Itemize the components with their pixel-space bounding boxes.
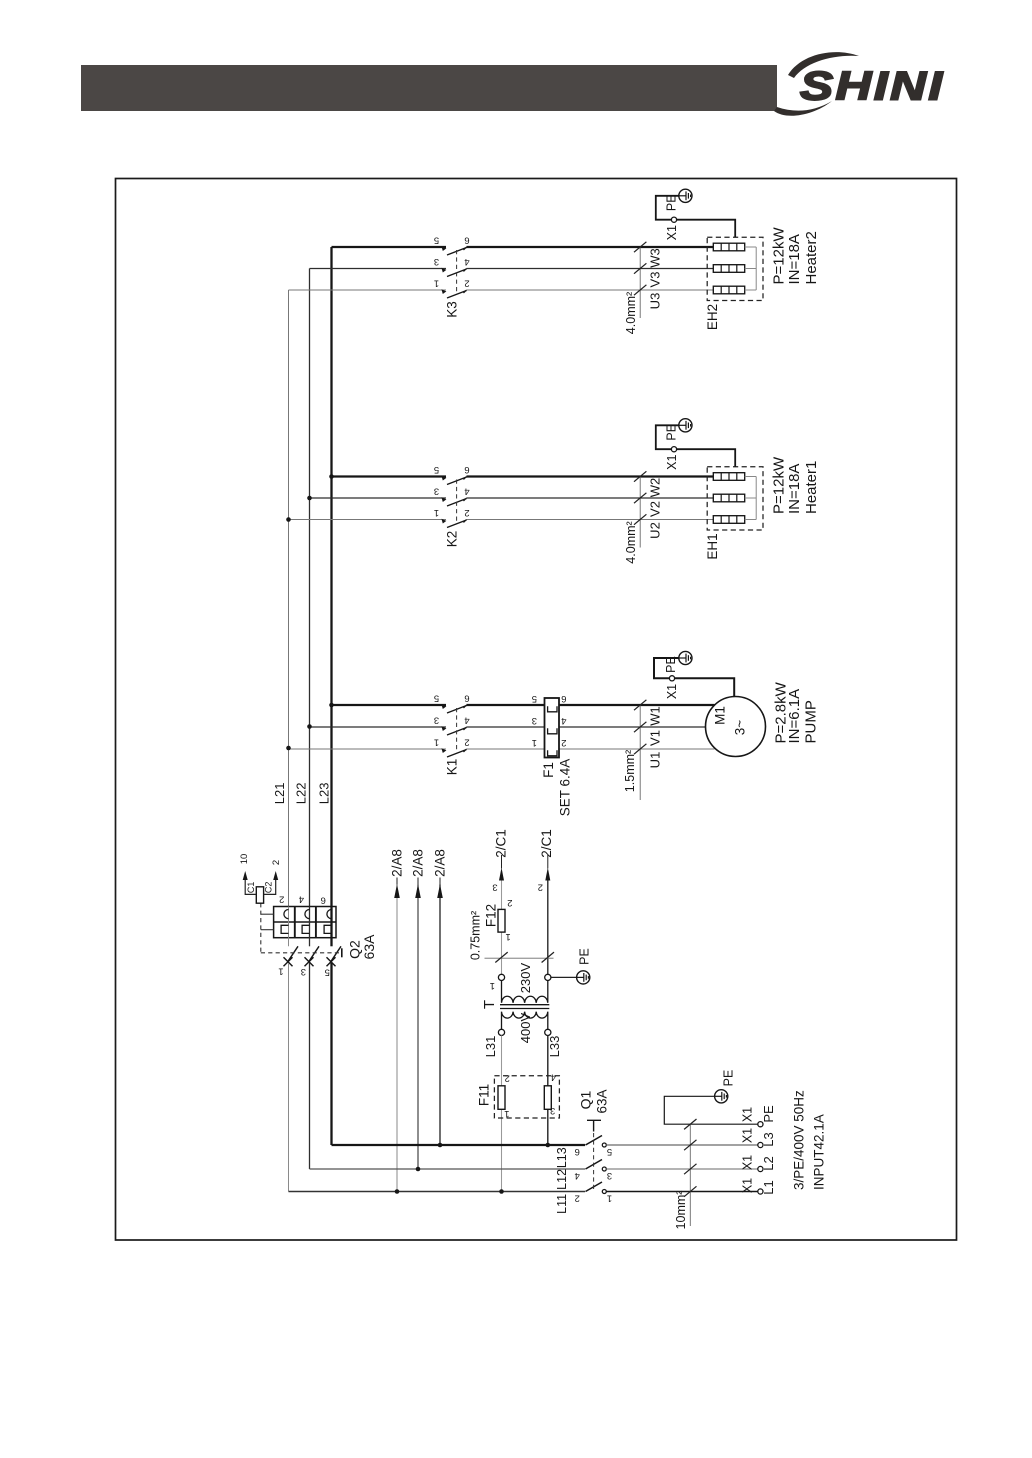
svg-text:5: 5 bbox=[607, 1146, 612, 1157]
svg-text:2: 2 bbox=[561, 737, 566, 748]
K2 mechanical linkage (dashed) bbox=[456, 480, 458, 523]
svg-text:3: 3 bbox=[301, 966, 306, 977]
svg-text:F12: F12 bbox=[483, 904, 498, 927]
Q2 mechanism linkage dashed bbox=[261, 952, 342, 954]
Q2 pole 1 lower wire bbox=[288, 963, 290, 1192]
svg-text:1: 1 bbox=[434, 278, 439, 289]
svg-text:L3: L3 bbox=[761, 1132, 776, 1146]
svg-text:V3: V3 bbox=[648, 272, 663, 288]
svg-text:4.0mm²: 4.0mm² bbox=[624, 292, 638, 334]
drawing frame border bbox=[116, 179, 957, 1241]
Q2 pole 3 lower wire bbox=[330, 963, 332, 1145]
wire L13 horizontal (corner from L23) bbox=[332, 1144, 586, 1146]
K3 contact pole 2 blade bbox=[441, 268, 446, 273]
junction L11 feeder bbox=[395, 1189, 400, 1194]
Q2 aux wire right to 2 bbox=[264, 874, 276, 895]
svg-text:3: 3 bbox=[434, 256, 439, 267]
K2 contact pole 2 blade bbox=[441, 497, 446, 502]
junction L21-K1 bbox=[286, 746, 291, 751]
junction L22-K2 bbox=[307, 496, 312, 501]
svg-text:2/A8: 2/A8 bbox=[410, 849, 425, 877]
svg-text:1: 1 bbox=[278, 965, 283, 976]
Q2 aux wire left to 10 bbox=[245, 874, 256, 895]
wire K2 row1 left segment bbox=[332, 475, 447, 477]
switch Q1 pole 3 hinge circle bbox=[602, 1190, 606, 1194]
svg-text:4: 4 bbox=[464, 486, 469, 497]
switch Q1 pole 1 hinge circle bbox=[602, 1143, 606, 1147]
wire L31 (transformer primary left down) bbox=[501, 1036, 503, 1086]
heater EH1 element 1 star stub bbox=[745, 476, 757, 478]
wire K2 row3 left segment bbox=[289, 519, 447, 521]
K3 contact pole 1 blade bbox=[441, 246, 446, 251]
svg-text:400V: 400V bbox=[518, 1012, 533, 1043]
Q2 pole 3 contact blade bbox=[331, 946, 341, 961]
overload relay F1 body bbox=[545, 698, 560, 758]
K2 contact pole 3 blade bbox=[441, 519, 446, 524]
svg-text:PE: PE bbox=[722, 1070, 736, 1087]
Q2 aux linkage stubs bbox=[261, 913, 274, 915]
wire PE input bbox=[664, 1096, 758, 1124]
svg-text:SHINI: SHINI bbox=[800, 63, 945, 108]
transformer PE branch wire bbox=[551, 976, 576, 978]
svg-text:3: 3 bbox=[532, 715, 537, 726]
svg-text:Heater1: Heater1 bbox=[803, 461, 820, 514]
svg-text:PE: PE bbox=[578, 948, 592, 965]
svg-text:1: 1 bbox=[490, 980, 495, 991]
Q1 linkage dashed bbox=[593, 1133, 595, 1191]
cable slash at y=290 bbox=[634, 285, 646, 295]
svg-text:V1: V1 bbox=[648, 730, 663, 746]
svg-text:6: 6 bbox=[321, 895, 326, 906]
svg-text:INPUT42.1A: INPUT42.1A bbox=[812, 1114, 827, 1190]
svg-text:5: 5 bbox=[434, 464, 439, 475]
transformer PE symbol bbox=[577, 971, 590, 984]
wire K1 row3 middle segment bbox=[467, 748, 545, 750]
svg-text:X1: X1 bbox=[740, 1178, 754, 1193]
svg-text:6: 6 bbox=[464, 235, 469, 246]
SHINI logo lower swoosh bbox=[774, 101, 832, 116]
svg-text:L11: L11 bbox=[555, 1194, 569, 1214]
svg-text:6: 6 bbox=[561, 693, 566, 704]
breaker Q2 cell dividers bbox=[294, 907, 296, 938]
junction L23-K1 bbox=[329, 703, 334, 708]
svg-text:1: 1 bbox=[434, 737, 439, 748]
svg-text:2: 2 bbox=[464, 278, 469, 289]
svg-text:2/A8: 2/A8 bbox=[389, 849, 404, 877]
svg-text:K3: K3 bbox=[444, 301, 459, 318]
svg-text:L1: L1 bbox=[761, 1180, 776, 1194]
arrow head 2/A8 #2 bbox=[415, 884, 421, 898]
input cable slash at y=1124 bbox=[684, 1119, 696, 1129]
cable mark line 4.0mm&#178; bbox=[639, 247, 641, 318]
heater EH2 element 3 star stub bbox=[745, 289, 757, 291]
overload relay F1 element row2 bbox=[548, 728, 557, 734]
heater EH1 terminal X1 (circle) bbox=[671, 447, 676, 452]
svg-text:5: 5 bbox=[532, 693, 537, 704]
svg-text:PE: PE bbox=[664, 656, 678, 673]
terminal X1:L2 bbox=[758, 1166, 763, 1171]
svg-text:63A: 63A bbox=[594, 1089, 609, 1113]
svg-text:5: 5 bbox=[325, 967, 330, 978]
svg-text:4: 4 bbox=[575, 1170, 580, 1181]
heater EH2 element 2 star stub bbox=[745, 268, 757, 270]
svg-text:1: 1 bbox=[532, 737, 537, 748]
heater EH1 star point wire bbox=[755, 477, 757, 520]
svg-text:2: 2 bbox=[505, 1073, 510, 1084]
Q2 linkage dashed vertical to aux contact bbox=[260, 903, 262, 953]
bus wire L21 (vertical) bbox=[288, 290, 290, 907]
svg-text:V2: V2 bbox=[648, 501, 663, 517]
wire L33 (transformer primary right down) bbox=[547, 1036, 549, 1086]
junction L21-K2 bbox=[286, 517, 291, 522]
transformer primary winding 400V bbox=[502, 1012, 548, 1030]
motor terminal X1 (circle) bbox=[669, 676, 674, 681]
K1 mechanical linkage (dashed) bbox=[456, 708, 458, 752]
svg-text:5: 5 bbox=[434, 693, 439, 704]
svg-text:4: 4 bbox=[464, 256, 469, 267]
svg-text:F1: F1 bbox=[541, 762, 556, 778]
svg-text:L23: L23 bbox=[316, 783, 331, 805]
Q2 pole 1 thermal trip hook bbox=[281, 925, 288, 933]
wire L2 input (right of Q1) bbox=[606, 1168, 758, 1170]
motor M1 PE wire bbox=[654, 658, 734, 697]
heater EH2 element 3 bbox=[713, 286, 744, 294]
svg-text:4: 4 bbox=[551, 1072, 556, 1083]
wire K3 row2 left segment bbox=[310, 268, 447, 270]
wire to 2/A8 #1 bbox=[396, 885, 398, 1192]
wire L11 horizontal (corner from L21) bbox=[289, 1191, 586, 1193]
svg-text:2: 2 bbox=[271, 860, 282, 865]
svg-text:2: 2 bbox=[279, 894, 284, 905]
K1 contact pole 1 blade bbox=[441, 704, 446, 709]
wire secondary left to 2/C1 bbox=[501, 880, 503, 909]
svg-text:X1: X1 bbox=[665, 225, 679, 240]
Q2 pole 2 contact cross bbox=[305, 957, 314, 966]
wire K1 row3 left segment bbox=[289, 748, 447, 750]
cable slash at y=498 bbox=[634, 493, 646, 503]
wire K1 row1 left segment bbox=[332, 704, 447, 706]
transformer T1 primary terminal left bbox=[498, 1029, 504, 1035]
motor PE symbol bbox=[679, 651, 692, 664]
svg-text:2: 2 bbox=[575, 1192, 580, 1203]
heater EH1 element 3 star stub bbox=[745, 519, 757, 521]
svg-text:IN=6.1A: IN=6.1A bbox=[786, 689, 803, 744]
svg-text:2: 2 bbox=[538, 881, 543, 892]
svg-text:L13: L13 bbox=[555, 1147, 569, 1168]
terminal X1:L3 bbox=[758, 1142, 763, 1147]
cable slash at y=268 bbox=[634, 263, 646, 273]
input PE symbol bbox=[715, 1090, 728, 1103]
Q2 pole 2 wire through body bbox=[309, 907, 311, 938]
junction L12 feeder bbox=[416, 1167, 421, 1172]
heater EH2 star point wire bbox=[755, 247, 757, 290]
svg-text:6: 6 bbox=[464, 693, 469, 704]
svg-text:X1: X1 bbox=[740, 1107, 754, 1122]
wire K1 row2 middle segment bbox=[467, 726, 545, 728]
wire secondary right to 2/C1 bbox=[547, 880, 549, 974]
breaker Q2 body bbox=[274, 907, 336, 938]
svg-text:L21: L21 bbox=[272, 783, 287, 805]
Q2 pole 2 lower wire bbox=[309, 963, 311, 1169]
K1 contact pole 3 blade bbox=[441, 748, 446, 753]
svg-text:4: 4 bbox=[561, 715, 566, 726]
svg-text:2: 2 bbox=[464, 507, 469, 518]
wire K2 row2 right segment bbox=[467, 497, 714, 499]
svg-text:SET 6.4A: SET 6.4A bbox=[557, 759, 572, 817]
svg-text:2/A8: 2/A8 bbox=[432, 849, 447, 877]
svg-text:U1: U1 bbox=[648, 752, 663, 769]
heater EH1 element 1 bbox=[713, 473, 744, 481]
K3 contact pole 3 blade bbox=[441, 289, 446, 294]
arrow head 2/C1 right bbox=[545, 868, 550, 881]
svg-text:Q1: Q1 bbox=[578, 1090, 594, 1109]
svg-text:2/C1: 2/C1 bbox=[539, 829, 554, 858]
wire K2 row2 left segment bbox=[310, 497, 447, 499]
svg-text:6: 6 bbox=[464, 464, 469, 475]
motor M1 circle bbox=[706, 697, 766, 757]
wire K3 row3 left segment bbox=[289, 289, 447, 291]
svg-text:3: 3 bbox=[492, 881, 497, 892]
Q2 pole 1 contact cross bbox=[284, 957, 293, 966]
Q2 pole 2 thermal trip hook bbox=[302, 925, 309, 933]
heater EH1 PE symbol (earth in circle) bbox=[679, 419, 692, 432]
svg-text:4.0mm²: 4.0mm² bbox=[624, 521, 638, 563]
svg-text:IN=18A: IN=18A bbox=[786, 234, 803, 284]
switch Q1 pole 1 blade bbox=[586, 1136, 603, 1146]
svg-text:IN=18A: IN=18A bbox=[786, 464, 803, 514]
switch Q1 pole 3 blade bbox=[586, 1182, 603, 1192]
svg-text:W2: W2 bbox=[648, 478, 663, 498]
transformer T1 primary terminal right bbox=[545, 1029, 551, 1035]
svg-text:EH2: EH2 bbox=[705, 304, 720, 330]
cable mark line 4.0mm&#178; bbox=[639, 477, 641, 548]
heater EH2 PE wire bbox=[656, 196, 735, 237]
cable slash at y=705 bbox=[634, 700, 646, 710]
svg-text:3/PE/400V 50Hz: 3/PE/400V 50Hz bbox=[791, 1090, 806, 1190]
svg-text:Heater2: Heater2 bbox=[803, 231, 820, 284]
cable slash at y=520 bbox=[634, 514, 646, 524]
svg-text:0.75mm²: 0.75mm² bbox=[468, 911, 482, 960]
svg-text:W1: W1 bbox=[648, 706, 663, 726]
bus wire L22 (vertical) bbox=[309, 269, 311, 907]
svg-text:K1: K1 bbox=[444, 759, 459, 776]
arrow head 2/A8 #3 bbox=[437, 884, 443, 898]
junction L13-L33 bbox=[546, 1143, 551, 1148]
wire K1 row1 right segment bbox=[559, 704, 715, 706]
wire L1 input (right of Q1) bbox=[606, 1191, 758, 1193]
svg-text:10mm²: 10mm² bbox=[674, 1191, 688, 1230]
Q2 pole 2 magnetic trip arc bbox=[305, 910, 310, 919]
svg-text:X1: X1 bbox=[665, 455, 679, 470]
svg-text:X1: X1 bbox=[740, 1128, 754, 1143]
wire K3 row1 right segment bbox=[467, 246, 714, 248]
transformer core bbox=[500, 1004, 549, 1006]
Q2 pole 1 magnetic trip arc bbox=[284, 910, 289, 919]
junction L23-K2 bbox=[329, 474, 334, 479]
svg-text:2: 2 bbox=[507, 897, 512, 908]
cable slash at y=247 bbox=[634, 242, 646, 252]
svg-text:L33: L33 bbox=[547, 1036, 562, 1058]
heater EH1 dashed enclosure bbox=[707, 467, 763, 530]
svg-text:10: 10 bbox=[239, 854, 250, 865]
wire K1 row3 right segment bbox=[559, 748, 715, 750]
K2 contact pole 1 blade bbox=[441, 476, 446, 481]
svg-text:L22: L22 bbox=[294, 783, 309, 805]
input cable slash at y=1145 bbox=[684, 1140, 696, 1150]
svg-text:PE: PE bbox=[761, 1105, 776, 1123]
fuse F11 right bbox=[544, 1086, 551, 1110]
input cable 10mm2 mark bbox=[689, 1124, 691, 1226]
svg-text:4: 4 bbox=[464, 715, 469, 726]
Q2 pole 1 wire through body bbox=[288, 907, 290, 938]
svg-text:1: 1 bbox=[504, 1108, 509, 1119]
junction L22-K1 bbox=[307, 724, 312, 729]
overload relay F1 element row3 bbox=[548, 750, 557, 756]
wire L12 horizontal (corner from L22) bbox=[310, 1168, 586, 1170]
heater EH1 element 3 bbox=[713, 516, 744, 524]
wire K3 row2 right segment bbox=[467, 268, 714, 270]
SHINI logo text bbox=[800, 63, 945, 108]
svg-text:1: 1 bbox=[434, 507, 439, 518]
svg-text:X1: X1 bbox=[740, 1155, 754, 1170]
overload relay F1 element row1 bbox=[548, 706, 557, 712]
wire K1 row2 right segment bbox=[559, 726, 706, 728]
svg-text:F11: F11 bbox=[476, 1084, 491, 1106]
svg-text:PUMP: PUMP bbox=[802, 700, 819, 743]
Q2 pole 3 wire through body bbox=[330, 907, 332, 938]
wire K1 row2 left segment bbox=[310, 726, 447, 728]
svg-text:5: 5 bbox=[434, 235, 439, 246]
Q2 aux contact C1/C2 box bbox=[256, 887, 263, 903]
cable slash at y=749 bbox=[634, 744, 646, 754]
fuse group F11 dashed box bbox=[494, 1076, 559, 1118]
svg-text:M1: M1 bbox=[712, 706, 727, 725]
switch Q1 pole 2 blade bbox=[586, 1160, 603, 1170]
cable slash at y=476 bbox=[634, 471, 646, 481]
svg-text:230V: 230V bbox=[518, 962, 533, 993]
svg-text:C1: C1 bbox=[246, 882, 256, 894]
svg-text:4: 4 bbox=[299, 894, 304, 905]
svg-text:C2: C2 bbox=[263, 882, 273, 894]
heater EH2 element 2 bbox=[713, 265, 744, 273]
cable slash at y=727 bbox=[634, 722, 646, 732]
fuse F11 left bbox=[498, 1086, 505, 1110]
svg-text:1: 1 bbox=[505, 931, 510, 942]
junction L13 feeder bbox=[438, 1143, 443, 1148]
header bar bbox=[81, 65, 777, 111]
wire to 2/A8 #3 bbox=[439, 885, 441, 1146]
svg-text:X1: X1 bbox=[665, 684, 679, 699]
wire L3 input (right of Q1) bbox=[606, 1144, 758, 1146]
Q2 pole 3 thermal trip hook bbox=[324, 925, 331, 933]
heater EH2 element 1 star stub bbox=[745, 246, 757, 248]
svg-text:PE: PE bbox=[665, 194, 679, 211]
transformer T1 secondary terminal left bbox=[498, 974, 504, 980]
svg-text:U2: U2 bbox=[648, 522, 663, 539]
heater EH2 element 1 bbox=[713, 243, 744, 251]
svg-text:L31: L31 bbox=[483, 1036, 498, 1058]
wire K2 row3 right segment bbox=[467, 519, 714, 521]
svg-text:W3: W3 bbox=[648, 248, 663, 268]
svg-text:U3: U3 bbox=[648, 293, 663, 310]
svg-text:K2: K2 bbox=[444, 531, 459, 548]
svg-text:L2: L2 bbox=[761, 1156, 776, 1170]
input cable slash at y=1192 bbox=[684, 1186, 696, 1196]
svg-text:3: 3 bbox=[607, 1170, 612, 1181]
Q2 pole 2 contact blade bbox=[309, 946, 319, 961]
heater EH1 element 2 bbox=[713, 494, 744, 502]
svg-text:3: 3 bbox=[550, 1105, 555, 1116]
transformer T1 secondary terminal right bbox=[545, 974, 551, 980]
Q1 handle bbox=[587, 1120, 601, 1131]
svg-text:1: 1 bbox=[607, 1192, 612, 1203]
heater EH1 PE wire bbox=[656, 425, 735, 466]
svg-text:3~: 3~ bbox=[732, 720, 747, 736]
switch Q1 pole 2 hinge circle bbox=[602, 1167, 606, 1171]
svg-text:3: 3 bbox=[434, 486, 439, 497]
Q2 pole 1 contact blade bbox=[288, 946, 298, 961]
wire to 2/A8 #2 bbox=[417, 885, 419, 1170]
wire K3 row3 right segment bbox=[467, 289, 714, 291]
svg-text:63A: 63A bbox=[361, 934, 377, 960]
wire K3 row1 left segment bbox=[332, 246, 447, 248]
svg-text:2: 2 bbox=[464, 737, 469, 748]
svg-text:3: 3 bbox=[434, 715, 439, 726]
svg-text:EH1: EH1 bbox=[705, 533, 720, 559]
wire K2 row1 right segment bbox=[467, 475, 714, 477]
svg-text:L12: L12 bbox=[555, 1169, 569, 1190]
heater EH2 terminal X1 (circle) bbox=[671, 217, 676, 222]
cable 0.75mm2 mark bbox=[485, 957, 554, 959]
heater EH2 PE symbol (earth in circle) bbox=[679, 189, 692, 202]
SHINI logo upper swoosh bbox=[788, 52, 859, 78]
junction L11-L31 bbox=[499, 1189, 504, 1194]
Q2 pole 3 contact cross bbox=[327, 957, 336, 966]
arrow head 2/C1 left bbox=[499, 868, 504, 881]
bus wire L23 (vertical) bbox=[330, 247, 332, 907]
svg-text:1.5mm²: 1.5mm² bbox=[623, 750, 637, 792]
terminal X1:PE bbox=[758, 1122, 763, 1127]
Q2 pole 3 magnetic trip arc bbox=[327, 910, 332, 919]
heater EH1 element 2 star stub bbox=[745, 497, 757, 499]
input cable slash at y=1169 bbox=[684, 1164, 696, 1174]
fuse F12 bbox=[498, 909, 505, 932]
terminal X1:L1 bbox=[758, 1189, 763, 1194]
K1 contact pole 2 blade bbox=[441, 726, 446, 731]
svg-text:PE: PE bbox=[665, 424, 679, 441]
cable mark line 1.5mm&#178; bbox=[639, 705, 641, 800]
heater EH2 dashed enclosure bbox=[707, 237, 763, 300]
svg-text:2/C1: 2/C1 bbox=[494, 829, 509, 858]
K3 mechanical linkage (dashed) bbox=[456, 250, 458, 293]
svg-text:T: T bbox=[481, 1000, 498, 1009]
wire K1 row1 middle segment bbox=[467, 704, 545, 706]
arrow head 2/A8 #1 bbox=[394, 884, 400, 898]
svg-text:6: 6 bbox=[575, 1146, 580, 1157]
transformer secondary winding 230V bbox=[502, 981, 548, 1003]
